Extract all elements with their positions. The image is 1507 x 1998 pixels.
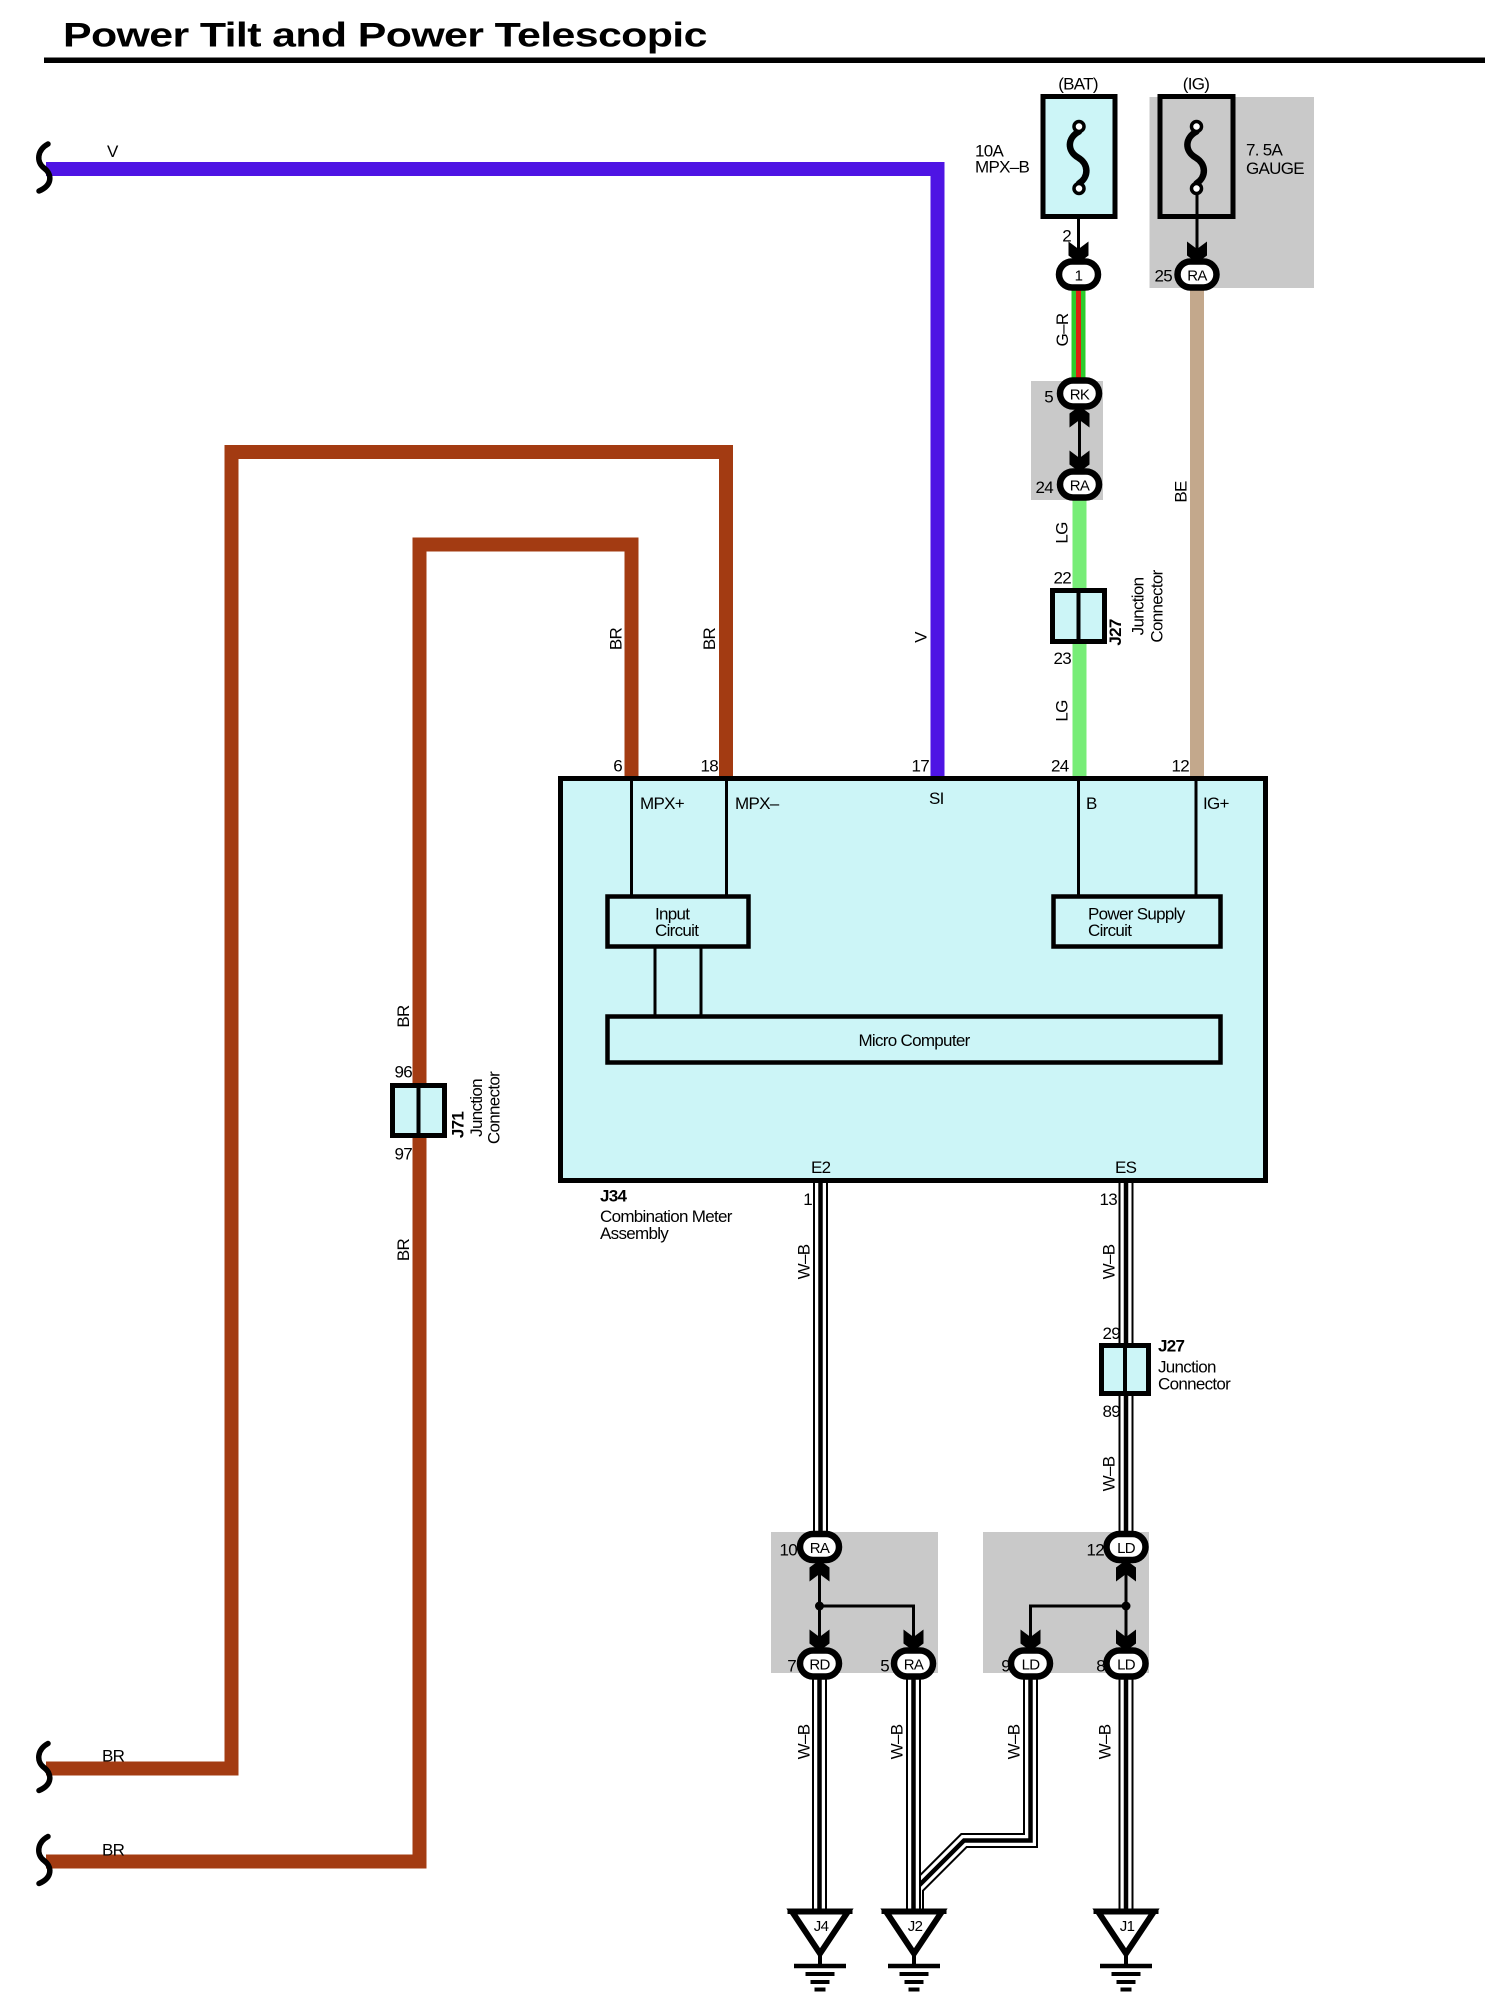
gray panel around RK/RA connector pair (1031, 381, 1103, 500)
squiggle wire-continuation mid left (39, 1744, 50, 1791)
svg-text:LD: LD (1117, 1540, 1136, 1557)
svg-text:BE: BE (1172, 481, 1191, 503)
junction connector J27 bottom (1102, 1346, 1149, 1394)
svg-text:J71: J71 (449, 1112, 468, 1139)
svg-text:RA: RA (904, 1657, 924, 1674)
ground J2 (882, 1911, 947, 1989)
svg-text:V: V (107, 142, 119, 161)
ground J1 (1094, 1911, 1159, 1989)
svg-text:1: 1 (1075, 268, 1083, 285)
svg-text:E2: E2 (811, 1158, 831, 1177)
wire W-B from pin 13 ES down through J27 to 12 LD (1119, 1181, 1134, 1536)
connector oval 12 LD (1107, 1534, 1146, 1560)
svg-text:RK: RK (1070, 387, 1090, 404)
svg-text:2: 2 (1062, 227, 1071, 246)
wire BE (beige) from connector 25 RA to pin 12 IG+ (1190, 285, 1204, 780)
svg-text:RA: RA (810, 1540, 830, 1557)
svg-text:Power Tilt and Power Telescopi: Power Tilt and Power Telescopic (63, 16, 707, 54)
fuse 10A MPX-B (1043, 97, 1115, 217)
svg-text:GAUGE: GAUGE (1246, 159, 1304, 178)
svg-text:18: 18 (700, 757, 718, 776)
wire 12 LD down to junction (1125, 1560, 1128, 1652)
arrow down into connector 9 LD (1021, 1630, 1041, 1652)
arrow down into connector 8 LD (1116, 1630, 1136, 1652)
wire pin12 internal (1195, 781, 1198, 896)
connector oval 24 RA (1060, 472, 1099, 498)
svg-text:17: 17 (911, 757, 929, 776)
wire stub fuse BAT to connector 1 (1077, 194, 1080, 252)
arrow into connector 25 RA (1187, 242, 1207, 264)
combination meter J34 box (561, 779, 1266, 1181)
arrow down into connector 5 RA (904, 1630, 924, 1652)
wire W-B from 7 RD to ground J4 (812, 1674, 827, 1910)
svg-text:BR: BR (394, 1005, 413, 1028)
svg-text:LD: LD (1022, 1657, 1041, 1674)
wire 10 RA down to junction (818, 1560, 821, 1652)
svg-text:97: 97 (394, 1145, 412, 1164)
svg-text:RD: RD (809, 1657, 830, 1674)
connector oval 25 RA (1178, 262, 1217, 288)
wire W-B from 5 RA to ground J2 (906, 1674, 921, 1910)
svg-text:12: 12 (1086, 1541, 1104, 1560)
svg-text:Junction: Junction (467, 1079, 486, 1137)
junction connector J27 top (1053, 591, 1105, 642)
node junction dot left (815, 1602, 824, 1611)
svg-text:MPX–: MPX– (735, 794, 780, 813)
svg-text:J2: J2 (908, 1918, 923, 1935)
svg-text:(BAT): (BAT) (1058, 75, 1098, 94)
gray panel bottom right (LD connectors) (983, 1532, 1149, 1673)
wire LG (light green) from connector 24 RA through J27 to pin 24 B (1073, 493, 1087, 780)
svg-text:LD: LD (1117, 1657, 1136, 1674)
gray panel bottom left (RA/RD/RA connectors) (771, 1532, 938, 1673)
input circuit box (608, 897, 749, 947)
wire pin24 internal (1077, 781, 1080, 896)
svg-text:J27: J27 (1158, 1337, 1185, 1356)
svg-text:29: 29 (1102, 1324, 1120, 1343)
ground J4 (788, 1911, 853, 1989)
svg-text:96: 96 (394, 1063, 412, 1082)
svg-text:BR: BR (394, 1238, 413, 1261)
svg-text:5: 5 (1044, 388, 1053, 407)
power supply circuit box (1054, 897, 1221, 947)
connector oval 9 LD (1011, 1651, 1050, 1677)
svg-text:IG+: IG+ (1203, 794, 1230, 813)
svg-text:23: 23 (1053, 649, 1071, 668)
svg-text:J34: J34 (600, 1187, 628, 1206)
wire pin18 internal (725, 781, 728, 896)
wire input circuit to micro computer (654, 947, 657, 1016)
svg-text:(IG): (IG) (1183, 75, 1210, 94)
svg-text:LG: LG (1053, 522, 1072, 543)
svg-text:25: 25 (1154, 267, 1172, 286)
micro computer box (608, 1017, 1221, 1063)
wire W-B from 8 LD to ground J1 (1119, 1674, 1134, 1910)
svg-text:Junction: Junction (1129, 577, 1148, 635)
svg-text:9: 9 (1001, 1657, 1010, 1676)
svg-text:RA: RA (1070, 478, 1090, 495)
svg-text:W–B: W–B (1100, 1456, 1119, 1491)
svg-text:B: B (1086, 794, 1097, 813)
svg-text:J27: J27 (1106, 619, 1125, 646)
svg-text:BR: BR (102, 1841, 125, 1860)
arrow up into connector 12 LD (1116, 1560, 1136, 1582)
svg-text:Micro Computer: Micro Computer (858, 1031, 970, 1050)
wire W-B from pin 1 E2 down to 10 RA (813, 1181, 828, 1536)
connector oval 5 RA (894, 1651, 933, 1677)
squiggle wire-continuation bottom left (39, 1837, 50, 1884)
svg-text:24: 24 (1035, 478, 1053, 497)
svg-text:Circuit: Circuit (1088, 921, 1132, 940)
svg-text:G–R: G–R (1053, 313, 1072, 346)
connector oval 1 (1059, 262, 1098, 288)
gray panel around IG fuse (1150, 97, 1315, 288)
svg-text:7. 5A: 7. 5A (1246, 141, 1284, 160)
svg-text:W–B: W–B (1096, 1724, 1115, 1759)
svg-text:BR: BR (700, 627, 719, 650)
wire G-R (green/red) from connector 1 to connector 5 RK (1072, 283, 1086, 387)
connector oval 5 RK (1060, 381, 1099, 407)
svg-text:7: 7 (787, 1657, 796, 1676)
svg-text:24: 24 (1051, 757, 1069, 776)
junction connector J71 (393, 1086, 445, 1136)
svg-text:1: 1 (803, 1190, 812, 1209)
wire branch junction to 5 RA (820, 1606, 914, 1652)
svg-text:Connector: Connector (1158, 1375, 1231, 1394)
arrow down into connector 24 RA (1070, 451, 1090, 473)
arrow up into connector 10 RA (810, 1560, 830, 1582)
wire V (violet) from left edge to pin 17 SI (46, 169, 938, 780)
svg-text:W–B: W–B (795, 1244, 814, 1279)
svg-text:W–B: W–B (795, 1724, 814, 1759)
svg-text:10: 10 (779, 1541, 797, 1560)
squiggle wire-continuation top left (39, 144, 50, 191)
wire BR (brown) from left edge to pin 18 MPX- (46, 452, 726, 1769)
arrow up into connector 5 RK (1070, 406, 1090, 428)
svg-text:J4: J4 (814, 1918, 829, 1935)
svg-text:89: 89 (1102, 1402, 1120, 1421)
svg-text:Assembly: Assembly (600, 1224, 669, 1243)
svg-text:W–B: W–B (1100, 1244, 1119, 1279)
svg-text:LG: LG (1053, 700, 1072, 721)
svg-text:5: 5 (880, 1657, 889, 1676)
svg-text:ES: ES (1115, 1158, 1137, 1177)
svg-text:W–B: W–B (1005, 1724, 1024, 1759)
svg-text:SI: SI (929, 789, 944, 808)
wire link connector 5 RK to 24 RA (1078, 406, 1081, 472)
svg-text:MPX+: MPX+ (640, 794, 685, 813)
wire branch junction to 9 LD (1031, 1606, 1127, 1652)
arrow into connector 1 (1069, 242, 1089, 264)
svg-text:W–B: W–B (888, 1724, 907, 1759)
wire stub fuse IG to connector 25 RA (1196, 194, 1199, 252)
svg-text:6: 6 (613, 757, 622, 776)
svg-text:13: 13 (1099, 1190, 1117, 1209)
wire BR (brown) from left edge through J71 to pin 6 MPX+ (46, 545, 632, 1862)
arrow down into connector 7 RD (810, 1630, 830, 1652)
svg-text:22: 22 (1053, 569, 1071, 588)
svg-text:BR: BR (102, 1747, 125, 1766)
svg-text:12: 12 (1171, 757, 1189, 776)
svg-text:Circuit: Circuit (655, 921, 699, 940)
svg-text:MPX–B: MPX–B (975, 158, 1029, 177)
fuse 7.5A GAUGE (1160, 97, 1233, 217)
svg-text:J1: J1 (1120, 1918, 1135, 1935)
svg-text:V: V (912, 631, 931, 643)
wire pin6 internal (630, 781, 633, 896)
svg-text:Connector: Connector (1148, 569, 1167, 642)
svg-text:RA: RA (1187, 268, 1207, 285)
wire W-B from 9 LD jogging to ground J2 (917, 1674, 1031, 1910)
svg-text:BR: BR (607, 627, 626, 650)
connector oval 7 RD (800, 1651, 839, 1677)
connector oval 10 RA (800, 1534, 839, 1560)
svg-text:Connector: Connector (485, 1071, 504, 1144)
node junction dot right (1122, 1602, 1131, 1611)
svg-text:8: 8 (1096, 1657, 1105, 1676)
connector oval 8 LD (1107, 1651, 1146, 1677)
